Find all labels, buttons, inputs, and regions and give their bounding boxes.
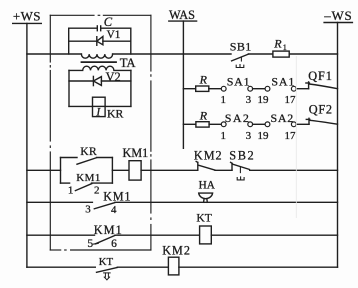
contact SA2 terminal 1	[221, 122, 226, 127]
svg-text:17: 17	[285, 94, 297, 106]
svg-text:+WS: +WS	[13, 9, 41, 24]
contactor KM1 coil	[129, 161, 141, 180]
svg-text:V1: V1	[107, 29, 121, 41]
svg-text:3: 3	[246, 130, 252, 142]
breaker contact QF2	[308, 118, 310, 124]
svg-text:1: 1	[221, 130, 227, 142]
node WAS bus bar	[169, 20, 197, 22]
row4 bottom wire	[27, 266, 95, 268]
wire top rail left	[27, 53, 82, 55]
wire WAS vertical bus	[182, 21, 184, 148]
wire -WS vertical bus	[337, 23, 339, 268]
contact SA1 terminal 19	[265, 86, 270, 91]
svg-text:5: 5	[87, 238, 93, 250]
svg-text:2: 2	[94, 185, 100, 197]
SA2 row: wire from WAS bus	[183, 123, 196, 125]
svg-text:KM1: KM1	[94, 223, 123, 237]
parallel block left vertical	[60, 158, 62, 184]
row1 wire from +WS bus	[27, 169, 61, 171]
breaker contact QF1	[308, 82, 310, 89]
faint scan crease	[295, 56, 297, 218]
relay KT coil	[200, 226, 212, 244]
rectifier block right vertical	[130, 70, 132, 106]
contact KT delay symbol	[104, 273, 111, 280]
svg-text:1: 1	[221, 94, 227, 106]
svg-text:KM1: KM1	[103, 189, 131, 203]
svg-text:KT: KT	[196, 212, 211, 225]
resistor R (row SA2)	[196, 122, 209, 127]
svg-text:QF1: QF1	[308, 69, 333, 83]
svg-text:R: R	[199, 108, 208, 122]
wire +WS vertical bus	[26, 23, 28, 267]
svg-text:KM2: KM2	[162, 243, 191, 257]
transformer TA secondary winding	[69, 66, 131, 70]
svg-text:KM1: KM1	[123, 146, 149, 160]
svg-text:1: 1	[283, 43, 287, 52]
SA1 row: wire from WAS bus	[183, 88, 195, 90]
pushbutton SB1 actuator cup	[236, 65, 244, 68]
wire top rail to SB1	[113, 53, 231, 55]
svg-text:–WS: –WS	[323, 8, 352, 23]
svg-text:SA2: SA2	[225, 111, 251, 125]
contact SA2 terminal 3	[248, 122, 253, 127]
dash-dot boundary box	[50, 15, 151, 250]
pushbutton SB1 blade	[232, 54, 249, 61]
svg-text:C: C	[104, 15, 113, 29]
contact KM1 5-6	[96, 235, 116, 243]
rectifier block left vertical	[68, 70, 70, 106]
resistor R (row SA1)	[196, 86, 209, 91]
contact SA1 terminal 17	[291, 86, 296, 91]
svg-text:KM2: KM2	[194, 149, 223, 163]
svg-text:SA1: SA1	[227, 75, 251, 89]
relay KR coil box	[93, 97, 106, 116]
wire KM2 coil to -WS bus	[179, 266, 338, 268]
snubber block left vertical	[68, 28, 70, 54]
svg-text:SA2: SA2	[271, 111, 294, 125]
svg-text:KR: KR	[107, 106, 124, 120]
capacitor C	[69, 27, 98, 29]
svg-text:QF2: QF2	[309, 103, 333, 117]
svg-text:19: 19	[258, 130, 270, 142]
contact KM1 1-2 (bottom branch)	[61, 182, 70, 184]
wire SB2 to -WS bus	[250, 169, 338, 171]
contact KT (delayed) blade	[97, 268, 118, 273]
wire block to KM1 coil	[112, 169, 129, 171]
svg-text:TA: TA	[120, 56, 137, 70]
svg-text:R: R	[199, 73, 208, 87]
svg-text:WAS: WAS	[169, 8, 195, 22]
svg-text:SA1: SA1	[271, 75, 295, 89]
svg-text:SB1: SB1	[230, 39, 252, 53]
row2 wire from +WS bus	[27, 201, 93, 203]
pushbutton SB1 actuator stem	[240, 58, 242, 61]
contact KM2 (row1)	[197, 162, 199, 170]
svg-text:KT: KT	[99, 256, 114, 268]
svg-text:HA: HA	[199, 179, 216, 191]
svg-text:3: 3	[246, 94, 252, 106]
contactor KM2 coil	[168, 257, 179, 275]
transformer TA core	[82, 61, 117, 63]
resistor R1	[273, 51, 289, 57]
svg-text:KM1: KM1	[76, 172, 101, 184]
pushbutton SB2	[231, 163, 233, 170]
svg-text:SB2: SB2	[229, 149, 255, 163]
parallel block right vertical	[111, 158, 113, 184]
contact KM1 3-4	[94, 203, 114, 209]
wire 3 to 19	[253, 88, 266, 90]
transformer TA primary winding	[81, 54, 112, 58]
wire KM1 coil to KM2 contact	[141, 169, 198, 171]
wire 3 to 19	[253, 123, 266, 125]
svg-text:19: 19	[258, 94, 270, 106]
svg-text:1: 1	[68, 185, 74, 197]
wire rail R1 to -WS	[289, 53, 337, 55]
svg-text:6: 6	[111, 238, 117, 250]
svg-text:V2: V2	[106, 70, 121, 84]
svg-text:17: 17	[285, 130, 297, 142]
contact KR (top branch)	[61, 157, 78, 159]
wire KT coil to -WS bus	[211, 234, 337, 236]
svg-text:4: 4	[111, 204, 117, 216]
wire 17 to QF2	[296, 123, 309, 125]
contact SA2 terminal 19	[265, 122, 270, 127]
wire rail SB1 to R1	[248, 53, 273, 55]
wire KR branch	[69, 105, 131, 107]
node -WS bus bar	[324, 22, 352, 24]
svg-text:KR: KR	[80, 145, 97, 158]
snubber block right vertical	[130, 28, 132, 54]
node +WS bus bar	[13, 22, 42, 24]
svg-text:R: R	[273, 37, 282, 51]
svg-text:3: 3	[85, 204, 91, 216]
diode V1	[69, 40, 97, 42]
wire KT contact to KM2 coil	[117, 266, 168, 268]
contact SA2 terminal 17	[291, 122, 296, 127]
bell HA	[199, 193, 213, 199]
diode V2	[69, 80, 93, 82]
contact SA1 terminal 3	[248, 86, 253, 91]
wire 17 to QF1	[296, 88, 308, 90]
contact SA1 terminal 1	[221, 86, 226, 91]
row3 wire from +WS bus	[27, 234, 95, 236]
